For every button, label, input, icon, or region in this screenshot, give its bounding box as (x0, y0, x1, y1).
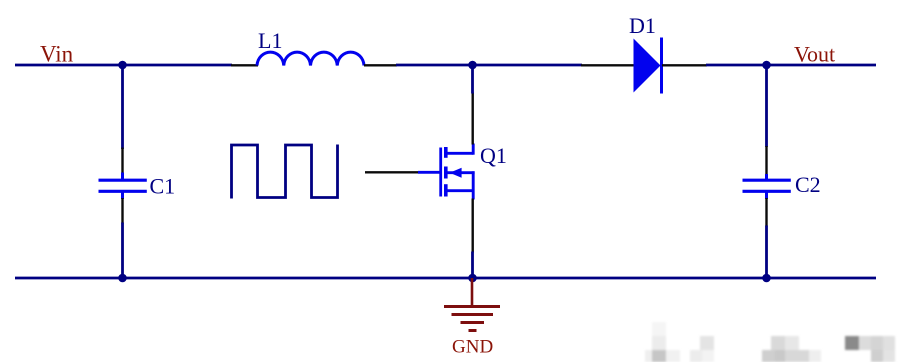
diode D1 (581, 38, 707, 94)
svg-text:Vout: Vout (794, 42, 835, 67)
node C2 bottom junction (762, 274, 771, 283)
wire drain top (471, 65, 474, 94)
svg-text:C2: C2 (795, 172, 821, 197)
wire source bottom (471, 252, 474, 279)
node GND junction (468, 274, 477, 283)
svg-text:Vin: Vin (40, 42, 74, 67)
wire C2 branch bottom (765, 226, 768, 279)
svg-text:GND: GND (452, 337, 493, 358)
node C1 bottom junction (118, 274, 127, 283)
capacitor C1 (99, 148, 147, 224)
pulse source square wave (232, 145, 338, 199)
node drain junction (468, 61, 477, 70)
svg-text:Q1: Q1 (480, 143, 507, 168)
svg-text:D1: D1 (629, 13, 656, 38)
wire C2 branch top (765, 65, 768, 147)
svg-text:L1: L1 (258, 28, 282, 53)
ground (444, 278, 500, 331)
wire bottom bus (15, 277, 876, 280)
wire gate drive (365, 171, 419, 173)
transistor Q1 (418, 93, 475, 253)
wire top bus left (15, 64, 232, 67)
node input junction (118, 61, 127, 70)
wire top bus middle (396, 64, 582, 67)
wire top bus right (706, 64, 876, 67)
node output junction (762, 61, 771, 70)
wire C1 branch top (121, 65, 124, 149)
wire C1 branch bottom (121, 223, 124, 279)
inductor L1 (231, 52, 397, 65)
svg-text:C1: C1 (150, 174, 176, 199)
watermark blur blocks (645, 322, 895, 362)
capacitor C2 (743, 146, 791, 227)
